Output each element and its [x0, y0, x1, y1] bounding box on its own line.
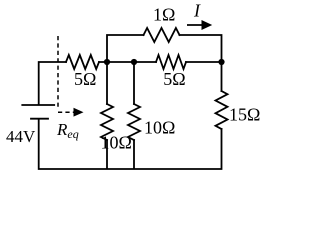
svg-text:10Ω: 10Ω — [101, 133, 132, 153]
svg-text:15Ω: 15Ω — [229, 105, 260, 125]
svg-text:10Ω: 10Ω — [144, 118, 175, 138]
svg-text:5Ω: 5Ω — [74, 69, 96, 89]
svg-text:5Ω: 5Ω — [163, 69, 185, 89]
svg-text:1Ω: 1Ω — [153, 5, 175, 25]
svg-text:I: I — [193, 1, 201, 21]
svg-text:44V: 44V — [6, 127, 36, 146]
